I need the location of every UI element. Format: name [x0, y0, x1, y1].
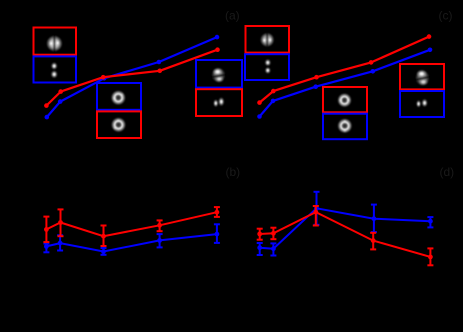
subplot (c) blue curve [257, 48, 432, 119]
subplot (b) blue markers [44, 232, 219, 254]
subplot (d) red errorbar series [257, 206, 434, 265]
subplot (a) right inset blue box [196, 60, 242, 88]
subplot (c) middle inset blue box [323, 114, 367, 140]
subplot (b) blue errorbar series [43, 224, 220, 255]
svg-text:(b): (b) [226, 165, 241, 179]
subplot (d) blue markers [257, 206, 432, 251]
subplot (a) red curve [44, 47, 220, 107]
subplot (d) red markers [257, 210, 432, 260]
subplot (a) right inset red box [196, 89, 242, 116]
panel label (a) [225, 9, 240, 23]
svg-text:(c): (c) [439, 9, 453, 23]
subplot (c) right inset red box [400, 64, 444, 89]
svg-text:(a): (a) [225, 9, 240, 23]
subplot (d) blue errorbar series [257, 192, 434, 256]
subplot (b) red errorbar series [43, 207, 220, 246]
subplot (c) left inset red box [246, 26, 290, 53]
subplot (a) middle inset red box [97, 111, 141, 138]
subplot (a) middle inset blue box [97, 83, 141, 110]
subplot (c) right inset blue box [400, 91, 444, 117]
panel label (c) [439, 9, 453, 23]
subplot (c) red curve [257, 34, 431, 105]
subplot (c) left inset blue box [245, 54, 289, 80]
panel label (d) [440, 165, 455, 179]
subplot (a) left inset blue box [34, 56, 77, 82]
subplot (c) middle inset red box [323, 87, 367, 112]
panel label (b) [226, 165, 241, 179]
svg-text:(d): (d) [440, 165, 455, 179]
subplot (b) red markers [44, 210, 219, 239]
subplot (a) left inset red box [34, 28, 77, 55]
subplot (a) blue curve [45, 35, 220, 120]
